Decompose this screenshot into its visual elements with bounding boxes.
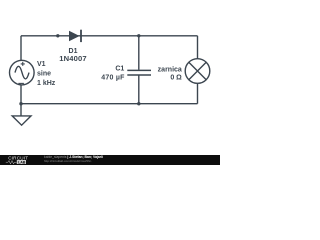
wire bottom [21,103,198,105]
svg-text:1 kHz: 1 kHz [37,80,56,87]
node junction top-cap [137,34,140,37]
node junction top-left [56,34,59,37]
wire top [21,35,198,37]
svg-text:470 µF: 470 µF [101,74,125,81]
svg-text:C1: C1 [115,65,124,72]
capacitor C1 plates [127,70,151,75]
svg-text:http://circuitlab.com/circuit/: http://circuitlab.com/circuit/cmsx5hn [44,159,92,163]
wire right vertical lamp top [197,36,199,59]
svg-text:LAB: LAB [18,160,26,164]
V1 plus sign [21,62,25,66]
footer bar [0,155,220,165]
svg-text:V1: V1 [37,61,46,68]
V1 minus sign [18,82,24,84]
svg-text:zarnica: zarnica [158,66,182,73]
lamp zarnica [185,59,210,84]
diode D1 [69,30,82,42]
CircuitLab logo LAB box [17,160,26,164]
wire left vertical V1 bottom [20,85,22,104]
wire capacitor bottom stub [138,75,140,104]
node junction bottom-left [19,102,22,105]
wire capacitor top stub [138,36,140,70]
CircuitLab logo waveform [6,161,17,164]
ground [12,104,31,126]
svg-text:sine: sine [37,71,51,78]
svg-text:0 Ω: 0 Ω [170,75,182,82]
wire left vertical V1 top [20,36,22,61]
node junction bottom-cap [137,102,140,105]
wire right vertical lamp bottom [197,83,199,104]
voltage source V1 circle [9,60,34,85]
svg-text:1N4007: 1N4007 [59,54,87,63]
